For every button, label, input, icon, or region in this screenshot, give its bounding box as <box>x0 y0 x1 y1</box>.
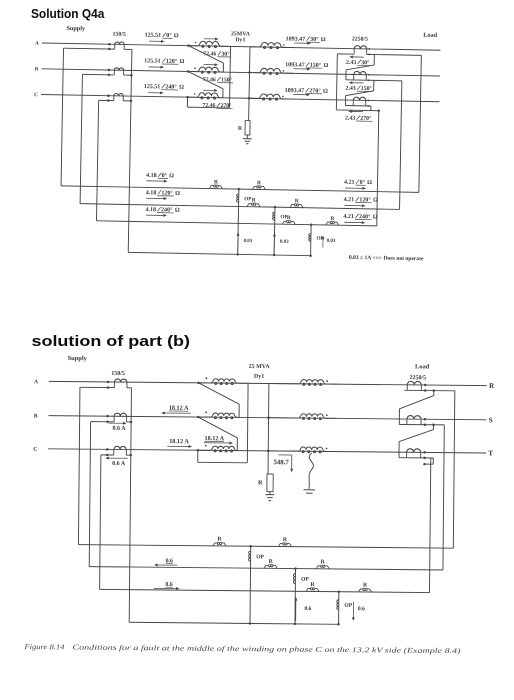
svg-text:R: R <box>330 216 334 222</box>
wire CT B secondary left lead (top) <box>82 73 114 76</box>
svg-text:OP: OP <box>301 577 309 583</box>
restraint coil R row 3 (bottom) <box>306 588 310 591</box>
CT load B dots (top) <box>368 74 370 76</box>
arrow relay current left row 3 (top) <box>146 214 163 216</box>
wire relay row 3 (top) <box>96 221 376 226</box>
restraint coil R row 1 (top) <box>252 186 256 189</box>
winding wye secondary S (bottom) <box>269 417 299 419</box>
wire load CT R secondary rail (bottom) <box>404 389 455 391</box>
wire CT C secondary left lead (bottom) <box>101 454 114 456</box>
wire load CT T secondary rail (bottom) <box>399 457 433 459</box>
arrow winding current C (top) <box>203 89 214 91</box>
arrow 0.6 left lead row 2 (bottom) <box>158 564 178 566</box>
wire relay common bus (bottom) <box>129 622 338 624</box>
svg-text:25 MVA: 25 MVA <box>249 364 271 370</box>
svg-text:S: S <box>489 416 493 424</box>
junction dots OP row 3 (top) <box>310 223 313 226</box>
arrow current direction phase C primary <box>148 92 160 94</box>
wire delta diagonal A-B (top) <box>188 46 224 63</box>
svg-text:2250/5: 2250/5 <box>409 375 426 381</box>
arrow relay current left row 2 (top) <box>146 197 163 199</box>
CT 150/5 phase B (bottom) <box>113 416 115 422</box>
wire load CT zigzag R-S (bottom) <box>433 391 435 396</box>
svg-text:A: A <box>35 41 39 47</box>
wire relay common bus (top) <box>128 252 310 255</box>
CT B polarity dots (bottom) <box>106 415 109 418</box>
svg-text:Ω: Ω <box>323 89 328 95</box>
svg-text:4.21: 4.21 <box>344 180 355 186</box>
wire load CT C rail (top) <box>345 105 370 107</box>
polarity dot delta A (top) <box>195 42 197 44</box>
polarity dot delta B (bottom) <box>205 412 207 414</box>
wire CT B right lead (bottom) <box>127 421 131 423</box>
arrow 18.12 A right (bottom C) <box>167 445 188 447</box>
svg-text:1093.47: 1093.47 <box>285 62 305 68</box>
relay operating coil OP row 1 (top) <box>237 194 239 202</box>
CT 2250/5 phase C (top) <box>352 100 354 105</box>
svg-text:C: C <box>34 92 38 98</box>
wire resistor to ground (top) <box>246 135 248 139</box>
wire CT C riser (bottom) <box>100 455 101 589</box>
ground symbol under R (bottom) <box>265 494 274 496</box>
polarity dot delta A (bottom) <box>206 377 208 379</box>
junction dot rail R (bottom) <box>433 389 436 392</box>
node delta junction A (bottom) <box>197 382 200 385</box>
fault squiggle on winding T <box>309 453 314 489</box>
arrow 0.03 A row 2 (top) <box>273 236 275 251</box>
winding wye secondary R (bottom) <box>269 383 299 385</box>
junction dots OP row 1 (top) <box>238 188 241 191</box>
svg-text:Ω: Ω <box>180 59 185 65</box>
CT load C dots (top) <box>367 100 369 102</box>
wire CT C secondary left lead (top) <box>99 99 114 101</box>
wire phase A line (top) <box>42 43 440 50</box>
svg-text:R: R <box>252 198 256 204</box>
arrow wye current B (top) <box>294 68 307 70</box>
wire relay row 2 (bottom) <box>89 567 443 570</box>
svg-text:2.43: 2.43 <box>345 116 355 122</box>
wire load CT zigzag B-C (top) <box>373 80 375 90</box>
svg-text:2250/5: 2250/5 <box>352 36 368 42</box>
CT 150/5 phase C (top) <box>113 96 115 101</box>
winding delta primary A (top) <box>188 45 197 47</box>
wire load CT zigzag S-T (bottom) <box>432 425 434 430</box>
svg-text:4.18: 4.18 <box>145 207 156 213</box>
winding delta primary B (top) <box>188 70 197 72</box>
CT A polarity dots (top) <box>108 43 111 46</box>
wire OP coil lead row 2 (top) <box>273 207 276 255</box>
wire CT B riser (bottom) <box>89 422 90 567</box>
ground symbol fault <box>303 489 314 491</box>
polarity dot wye T (bottom) <box>326 448 328 450</box>
wire phase C line (bottom) <box>48 449 486 453</box>
arrow load CT B secondary current (top) <box>352 82 363 84</box>
svg-text:R: R <box>214 179 218 185</box>
wire load CT B rail (top) <box>346 80 402 81</box>
svg-text:0.6 A: 0.6 A <box>113 426 127 432</box>
polarity dot delta C (bottom) <box>205 445 207 447</box>
CT 150/5 phase B (top) <box>113 70 115 75</box>
svg-text:Figure 8.14: Figure 8.14 <box>23 643 65 651</box>
arrow 0.6 down OP3 (bottom) <box>352 602 354 617</box>
wire relay row 2 (top) <box>80 204 399 210</box>
CT 2250/5 phase T (bottom) <box>406 452 408 457</box>
wire OP coil lead row 3 (top) <box>310 225 313 256</box>
polarity dot wye C (top) <box>282 96 284 98</box>
wire phase C line (top) <box>41 94 439 101</box>
arrow 18.12 A right winding C <box>204 442 229 444</box>
wire load CT T return to relay row 3 (bottom) <box>429 458 430 593</box>
wire delta closing C-A (top) <box>186 97 188 107</box>
wire CT B secondary right lead (top) <box>124 74 132 76</box>
wire CT C riser to relay row 3 (top) <box>96 100 98 220</box>
svg-text:R: R <box>489 382 495 390</box>
svg-text:Dy1: Dy1 <box>235 37 245 43</box>
arrow winding current B (top) <box>204 64 215 66</box>
arrow current direction phase B primary <box>149 66 161 68</box>
polarity dot delta B (top) <box>194 67 196 69</box>
svg-text:125.51: 125.51 <box>144 58 161 64</box>
node delta junction B (top) <box>187 70 190 73</box>
svg-text:Ω: Ω <box>321 37 326 43</box>
svg-text:150/5: 150/5 <box>113 32 126 38</box>
wire load CT A return to relay row 1 (top) <box>419 55 421 192</box>
junction dots CT common (bottom) <box>130 421 133 424</box>
wire CT common neutral vertical (bottom) <box>129 388 131 622</box>
node delta junction C (bottom) <box>197 449 200 452</box>
wire CT C secondary right lead (top) <box>123 100 131 102</box>
restraint coil R row 2 (bottom) <box>316 566 320 569</box>
winding wye secondary C (top) <box>249 97 259 99</box>
svg-text:0.6: 0.6 <box>165 582 172 588</box>
arrow 0.6 right lead row 3 (bottom) <box>154 587 176 589</box>
wire phase B line (top) <box>42 69 440 76</box>
svg-text:Ω: Ω <box>367 180 372 186</box>
restraint coil R row 3 (bottom) <box>358 589 362 592</box>
arrow 0.6A out of CT C <box>109 457 128 459</box>
leader 548.7 fault current <box>278 454 291 456</box>
wire phase A line (bottom) <box>49 381 487 385</box>
svg-text:150/5: 150/5 <box>111 371 125 377</box>
svg-text:R: R <box>287 215 291 221</box>
svg-text:125.51: 125.51 <box>145 33 162 39</box>
junction dots OP row 2 (top) <box>274 206 277 209</box>
svg-text:R: R <box>257 180 261 186</box>
wire CT A secondary right lead (top) <box>124 48 132 50</box>
svg-text:Solution Q4a: Solution Q4a <box>31 6 105 21</box>
svg-text:18.12 A: 18.12 A <box>169 438 189 445</box>
svg-text:Ω: Ω <box>169 173 174 179</box>
restraint coil R row 2 (bottom) <box>264 565 268 568</box>
CT 150/5 phase A (top) <box>114 44 116 49</box>
svg-text:18.12 A: 18.12 A <box>169 405 189 412</box>
wire CT B secondary left lead (bottom) <box>91 421 114 423</box>
CT C polarity dots (top) <box>107 94 110 97</box>
svg-text:Dy1: Dy1 <box>254 374 264 380</box>
junction dots OP row 2 (bottom) <box>294 567 297 570</box>
wire resistor to ground (bottom) <box>269 492 271 495</box>
svg-text:0.6 A: 0.6 A <box>112 461 126 467</box>
node delta junction A (top) <box>187 44 190 47</box>
wire delta diagonal B-C (bottom) <box>198 417 238 438</box>
CT B polarity dots (top) <box>108 69 111 72</box>
arrow current direction phase A primary <box>149 40 161 42</box>
junction dots OP row 1 (bottom) <box>249 545 252 548</box>
svg-text:4.18: 4.18 <box>146 173 157 179</box>
winding wye secondary T (bottom) <box>268 450 298 452</box>
svg-text:18.12 A: 18.12 A <box>205 435 225 442</box>
restraint coil R row 3 (top) <box>326 222 330 225</box>
wire load CT A right rail (top) <box>367 53 422 56</box>
svg-text:125.51: 125.51 <box>144 84 161 90</box>
resistor R earthing (bottom) <box>267 474 273 492</box>
svg-text:R: R <box>295 198 299 204</box>
svg-text:0.03: 0.03 <box>244 239 253 244</box>
wire CT B riser to relay row 2 (top) <box>80 74 82 203</box>
svg-text:Ω: Ω <box>175 208 180 214</box>
arrow 0.6A into CT B <box>109 422 123 424</box>
CT 2250/5 phase A (top) <box>353 49 355 54</box>
svg-text:Ω: Ω <box>373 198 378 204</box>
svg-text:Ω: Ω <box>323 63 328 69</box>
junction dots wye neutral (top) <box>248 71 251 74</box>
svg-text:Ω: Ω <box>175 191 180 197</box>
restraint coil R row 1 (top) <box>209 186 213 189</box>
wire OP lead row 1 (bottom) <box>249 546 252 623</box>
winding wye secondary B (top) <box>249 72 259 74</box>
polarity dot wye A (top) <box>283 44 285 46</box>
wire CT A riser to relay row 1 (top) <box>61 48 63 186</box>
svg-text:Supply: Supply <box>66 25 86 32</box>
ground symbol (top) <box>243 138 252 140</box>
svg-text:2.43: 2.43 <box>346 60 356 66</box>
winding delta primary C (top) <box>188 96 197 98</box>
wire CT A secondary left lead (bottom) <box>80 386 114 388</box>
svg-text:Ω: Ω <box>174 33 179 39</box>
junction dots on CT common (top) <box>130 74 133 77</box>
wire relay row 1 (bottom) <box>78 545 453 549</box>
svg-text:4.18: 4.18 <box>146 190 157 196</box>
arrow 0.03 A row 3 (top) <box>322 239 324 247</box>
CT load A dots (top) <box>368 48 370 50</box>
wire delta diagonal B-C (top) <box>188 71 224 88</box>
svg-text:0.03: 0.03 <box>280 240 289 245</box>
polarity dot wye S (bottom) <box>326 414 328 416</box>
restraint coil R row 1 (bottom) <box>213 543 217 546</box>
relay operating coil OP row 2 (bottom) <box>293 574 295 584</box>
restraint coil R row 1 (bottom) <box>278 544 282 547</box>
svg-text:Load: Load <box>415 363 430 370</box>
svg-text:Ω: Ω <box>179 85 184 91</box>
wire CT A secondary left lead (top) <box>64 47 115 50</box>
svg-text:0.6: 0.6 <box>358 606 365 612</box>
svg-text:solution of part (b): solution of part (b) <box>32 334 191 350</box>
winding delta primary C (bottom) <box>198 449 211 451</box>
CT 2250/5 phase R (bottom) <box>406 385 408 390</box>
polarity dot wye R (bottom) <box>326 380 328 382</box>
arrow relay current left row 1 (top) <box>147 180 164 182</box>
wire OP lead row 3 (bottom) <box>338 592 340 625</box>
restraint coil R row 2 (top) <box>247 204 251 207</box>
junction dots OP row 3 (bottom) <box>338 590 341 593</box>
wire CT A riser (bottom) <box>78 387 80 544</box>
CT load R dots (bottom) <box>424 384 427 387</box>
CT 150/5 phase A (bottom) <box>113 382 115 388</box>
CT load T dots (bottom) <box>423 451 426 454</box>
wire relay row 1 (top) <box>61 186 419 192</box>
CT C polarity dots (bottom) <box>106 448 109 451</box>
wire OP lead row 2 (bottom) <box>294 569 297 624</box>
wire relay row 3 (bottom) <box>100 589 430 592</box>
arrow winding current A (top) <box>204 38 215 40</box>
CT 150/5 phase C (bottom) <box>113 449 115 455</box>
wire wye neutral bus (bottom) <box>267 384 270 474</box>
CT 2250/5 phase S (bottom) <box>406 419 408 424</box>
wire delta diagonal A-B (bottom) <box>198 383 239 404</box>
arrow load CT A secondary current (top) <box>353 56 364 58</box>
relay operating coil OP row 1 (bottom) <box>249 551 251 561</box>
svg-text:A: A <box>34 379 38 385</box>
polarity dot wye B (top) <box>283 70 285 72</box>
arrow wye current A (top) <box>294 42 307 44</box>
svg-text:2.43: 2.43 <box>346 86 356 92</box>
wire load CT C return to relay row 3 (top) <box>377 111 379 226</box>
junction dots wye neutral (bottom) <box>267 416 270 419</box>
arrow 0.6 up OP2 (bottom) <box>295 601 297 621</box>
arrow 18.12 A left (bottom B) <box>165 412 191 414</box>
arrow 0.03 A row 1 (top) <box>237 236 239 251</box>
wire CT common neutral vertical (top) <box>128 49 132 252</box>
arrow relay current right row 2 (top) <box>345 204 362 206</box>
svg-text:Ω: Ω <box>373 214 378 220</box>
wire CT C right lead (bottom) <box>126 454 130 456</box>
svg-text:Supply: Supply <box>68 355 88 362</box>
bottom scanned diagram (tilted) <box>23 355 495 656</box>
wire load CT zigzag A-B (top) <box>373 55 375 65</box>
resistor R earthing (top) <box>245 121 250 135</box>
winding wye secondary A (top) <box>250 46 260 48</box>
svg-text:0.03: 0.03 <box>327 239 336 244</box>
relay operating coil OP row 2 (top) <box>273 212 275 220</box>
top scanned diagram (tilted) <box>31 24 440 262</box>
wire phase B line (bottom) <box>48 416 486 420</box>
wire wye neutral bus (top) <box>249 47 250 121</box>
svg-text:4.21: 4.21 <box>343 214 354 220</box>
node delta junction C (top) <box>186 96 189 99</box>
wire delta closing C-A (bottom) <box>197 450 199 462</box>
wire load CT T stub (bottom) <box>432 458 434 464</box>
arrow relay current right row 1 (top) <box>345 187 362 189</box>
relay operating coil OP row 3 (bottom) <box>337 600 339 610</box>
svg-text:4.21: 4.21 <box>344 197 355 203</box>
CT load S dots (bottom) <box>424 418 427 421</box>
svg-text:1093.47: 1093.47 <box>286 36 306 42</box>
CT A polarity dots (bottom) <box>107 381 110 384</box>
svg-text:Load: Load <box>423 32 437 39</box>
svg-text:0.6: 0.6 <box>166 558 173 564</box>
winding delta primary A (bottom) <box>198 382 211 384</box>
polarity dot delta C (top) <box>194 93 196 95</box>
svg-text:B: B <box>34 413 38 419</box>
arrow relay current right row 3 (top) <box>344 221 361 223</box>
svg-text:1093.47: 1093.47 <box>285 88 305 94</box>
CT 2250/5 phase B (top) <box>353 74 355 79</box>
wire CT A right lead (bottom) <box>127 387 131 389</box>
svg-text:T: T <box>488 449 493 457</box>
svg-text:C: C <box>33 447 37 453</box>
svg-text:OP: OP <box>256 554 264 560</box>
svg-text:OP: OP <box>344 603 352 609</box>
junction dot rail S (bottom) <box>432 424 435 427</box>
wire load CT S return to relay row 2 (bottom) <box>443 425 444 570</box>
arrow load CT C secondary current (top) <box>352 110 363 112</box>
wire load CT B return to relay row 2 (top) <box>400 81 402 210</box>
restraint coil R row 2 (top) <box>290 204 294 207</box>
winding delta primary B (bottom) <box>198 416 211 418</box>
relay operating coil OP row 3 (top) <box>309 234 311 242</box>
wire load CT R return to relay row 1 (bottom) <box>453 391 455 548</box>
wire load CT S secondary rail (bottom) <box>399 423 444 425</box>
restraint coil R row 3 (top) <box>282 221 286 224</box>
svg-text:0.6: 0.6 <box>304 606 311 612</box>
svg-text:R: R <box>258 479 263 486</box>
wire load CT common left path (top) <box>337 53 354 55</box>
arrow wye current C (top) <box>293 93 306 95</box>
node delta junction B (bottom) <box>197 416 200 419</box>
wire OP coil lead row 1 (top) <box>238 189 239 254</box>
svg-text:548.7: 548.7 <box>273 459 289 466</box>
